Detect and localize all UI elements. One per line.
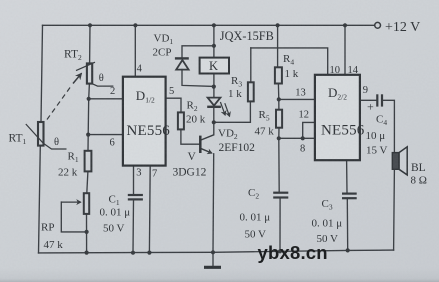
wire ground stub [212,252,214,265]
node rail-RP [85,251,89,255]
wire IC1 pin2 [89,98,123,100]
LED VD2 [207,98,229,117]
wire IC1 pin3 through C1 [133,166,135,194]
node rail-C2 [278,249,282,253]
capacitor C2 [273,193,288,198]
node R4-R5-pin13 [277,97,281,101]
wire IC2 pin13 [279,98,315,100]
wire IC1 pin7 to rail [148,166,151,253]
resistor R1 [85,151,92,172]
wire VD2 cathode down [213,107,215,135]
wire IC2 pin12 bend [303,122,315,138]
wire left branch (RT1 column) [41,25,43,122]
capacitor C3 [342,194,357,199]
wire VD1 top link [182,46,214,58]
wire pin8 node down to C2 [278,138,280,192]
wire R4 to pin13 node [277,84,279,100]
wire IC1 pin6 [88,134,123,136]
resistor R2 [178,112,184,129]
bottom scan shadow [0,268,439,282]
wire K coil column [213,46,215,58]
relay coil K [200,58,229,74]
thermistor RT2 [76,62,113,86]
wire R2 bottom to base [181,129,199,144]
wire IC2 pin14 to rail [344,25,346,75]
wire RP wiper return [61,202,86,232]
thermistor RT1 [26,122,67,149]
node rail-ground [211,250,215,254]
wire R3 top riser [250,48,252,82]
node RP return [85,230,89,234]
wire C3 bottom to rail [346,199,348,251]
wire rail to relay node [213,25,215,46]
transistor Q1 V 3DG12 [200,135,214,153]
op-amp U1 : timer IC D1/2 NE556 [123,77,166,166]
scan texture overlay [0,0,1,1]
node pin6 [86,133,90,137]
wire RT2/R1/RP column [89,25,91,63]
node rail-pin14 [343,23,347,27]
capacitor C4 electrolytic [377,94,382,106]
diode VD1 [175,58,189,69]
wire IC2 pin8 [279,137,315,139]
wire VD2 node to R3 [214,101,251,122]
node rail-C3 [346,248,350,252]
node R5-pin8-C2 [277,136,281,140]
wire IC2 pin11 to C3 [346,160,348,192]
coupling dashed arrow RT1 to RT2 [47,73,82,119]
node rail-relay [212,23,216,27]
node K bottom [212,85,216,89]
wire emitter to ground rail [212,154,215,253]
wire IC2 pin9 to C4 [360,99,376,101]
wire top +12V rail [43,24,375,26]
node pin2 [87,97,91,101]
wire IC1 pin4 to rail [134,25,136,76]
node rail-RT2 [88,23,92,27]
wire R5 to pin8 node [278,128,280,139]
resistor R4 [275,67,282,83]
node VD1-K top [212,44,216,48]
capacitor C1 [128,195,143,199]
node rail-R4 [276,23,280,27]
wire VD1 anode to K bottom node [182,70,214,87]
potentiometer RP [61,193,89,214]
wire IC1 pin5 to R2 [166,98,181,112]
wire rail to R4 [277,25,279,67]
node pin12-pin8 [301,136,305,140]
wire C4 to speaker [382,100,394,152]
resistor R3 [248,82,254,101]
wire R3 to IC2 pin10 [251,48,328,75]
speaker BL [392,147,407,175]
node VD2-R3-collector [212,120,216,124]
wire bottom ground rail [39,250,394,253]
wire pin13 node to R5 [278,99,280,109]
resistor R5 [276,110,282,128]
ground [204,266,221,269]
+12V terminal [375,22,381,28]
wire speaker bottom to rail [393,169,396,250]
op-amp U2 : timer IC D2/2 NE556 [315,75,360,160]
node rail-pin4 [133,23,137,27]
wire C2 bottom to rail [279,198,281,251]
node rail-pin7 [147,251,151,255]
node rail-C1 [131,251,135,255]
